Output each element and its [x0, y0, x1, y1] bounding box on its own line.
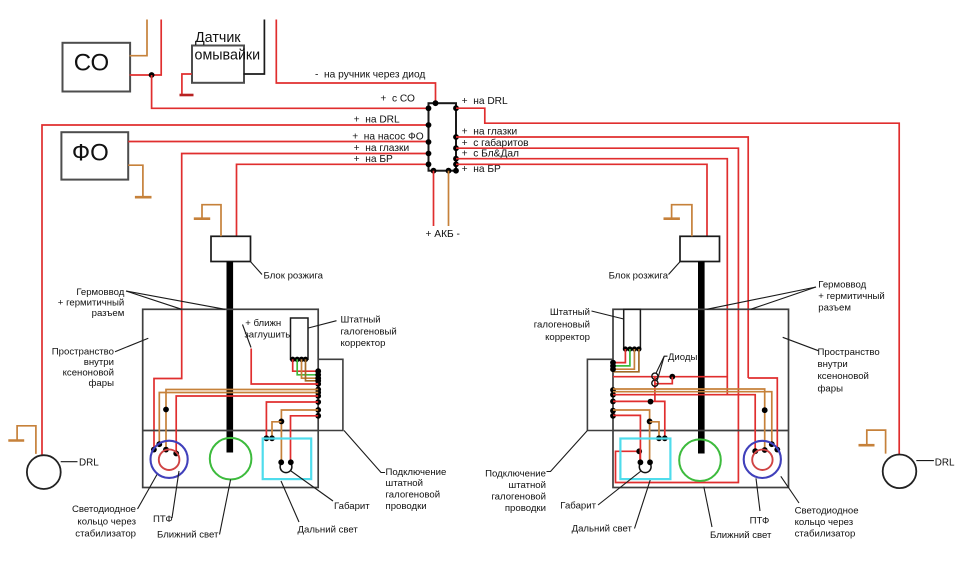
lamp LED ring left (ПТФ) blue	[151, 441, 188, 478]
node X1 pin left 3 (на насос ФО)	[426, 139, 432, 145]
label Дальний свет right with pointer	[635, 480, 651, 528]
node X1 pin right 4 (с Бл&Дал)	[453, 156, 459, 162]
node X1 top entry (ручник)	[433, 100, 439, 106]
block CO (СО relay)	[63, 43, 131, 92]
wire right orange2 (to LED ring)	[613, 392, 772, 445]
label Подключение штатной галогеновой проводки left	[344, 431, 385, 473]
svg-text:кольцо через: кольцо через	[795, 517, 854, 528]
wire + на DRL right (to right DRL lamp)	[456, 108, 899, 454]
label Подключение штатной галогеновой проводки right	[547, 431, 588, 472]
svg-text:омывайки: омывайки	[195, 48, 261, 64]
wire corrector left pin2 green	[297, 359, 318, 375]
node X1 pin left 4 (на глазки)	[426, 151, 432, 157]
wire left red W6 (wall to дальний box)	[266, 402, 318, 438]
wire заглушить red	[251, 349, 318, 385]
wire CO red output up	[130, 20, 162, 76]
svg-text:+ гермитичный: + гермитичный	[58, 298, 125, 309]
wire right row 401 red	[613, 401, 665, 438]
wire left orange W7 (wall to габарит)	[281, 410, 318, 462]
svg-text:разъем: разъем	[818, 303, 851, 314]
node left wall ladder dots	[315, 368, 321, 374]
ground ignition left orange	[202, 205, 221, 237]
svg-text:ПТФ: ПТФ	[750, 515, 770, 526]
lamp DRL left circle	[27, 455, 61, 489]
svg-text:+ на DRL: + на DRL	[462, 96, 508, 107]
svg-text:внутри: внутри	[818, 359, 848, 370]
wire left orange2 (wall to LED ring)	[159, 393, 318, 445]
svg-text:фары: фары	[89, 378, 115, 389]
wire corrector left pin3 orange	[302, 359, 319, 378]
node on W7	[279, 419, 285, 425]
wire corrector right pin3 orange	[613, 349, 634, 369]
wire right diode row red	[613, 376, 727, 378]
svg-text:ксеноновой: ксеноновой	[63, 368, 114, 379]
node X1 battery pins	[446, 168, 452, 174]
block ignition unit left (Блок розжига)	[211, 236, 251, 261]
node габарит pins left	[278, 459, 284, 465]
wire + с габаритов right	[456, 148, 738, 482]
svg-text:Штатный: Штатный	[550, 307, 590, 318]
node on orange1	[163, 407, 169, 413]
block corrector left (Штатный галогеновый корректор)	[291, 318, 309, 359]
svg-text:галогеновый: галогеновый	[534, 320, 590, 331]
wire + с СО (junction to connector)	[152, 75, 429, 108]
node corrector left pins	[290, 357, 295, 362]
svg-text:проводки: проводки	[386, 501, 427, 512]
wire + на DRL left (to left DRL lamp)	[42, 125, 429, 455]
svg-text:внутри: внутри	[84, 357, 114, 368]
node X1 pin right 5 (на БР)	[453, 161, 459, 167]
node right wall ladder dots	[610, 360, 616, 366]
lamp LED ring right (ПТФ) blue	[744, 441, 781, 478]
svg-text:+ с габаритов: + с габаритов	[462, 137, 529, 149]
wire left orange1 (wall to LED ring)	[166, 390, 318, 450]
svg-text:Светодиодное: Светодиодное	[72, 504, 136, 515]
svg-text:разъем: разъем	[92, 308, 125, 319]
pointer Пространство right	[783, 337, 819, 350]
node габаритов bottom corner	[636, 448, 642, 454]
wire + на БР left (to left ignition block)	[237, 164, 429, 236]
pointer Светодиодное right	[781, 476, 799, 503]
label ПТФ right with pointer	[756, 478, 760, 511]
diode D1 (open circle)	[652, 373, 658, 379]
wire + на глазки right	[456, 137, 748, 378]
wire + на БР right (to right ignition block)	[456, 164, 707, 236]
ground washer sensor	[182, 74, 192, 94]
svg-text:стабилизатор: стабилизатор	[75, 528, 136, 539]
svg-text:Габарит: Габарит	[560, 500, 596, 511]
wire left red W4 (wall to LED ring)	[176, 396, 318, 453]
ground ignition right orange	[672, 205, 692, 237]
label Габарит left with pointer	[291, 471, 333, 501]
diode D2 (open circle)	[652, 380, 658, 386]
wire corrector right pin4 brown	[613, 349, 639, 372]
svg-text:проводки: проводки	[505, 503, 546, 514]
wire right red row394 (to LED ring)	[613, 395, 755, 452]
wire right orange1 (to LED ring)	[613, 389, 765, 450]
label ПТФ left with pointer	[172, 471, 179, 518]
wire corrector right pin1 red	[613, 349, 625, 363]
lamp ПТФ inner red circle right	[752, 450, 772, 470]
label DRL left with pointer	[61, 461, 78, 463]
node X1 corner bottom-right	[453, 168, 459, 174]
svg-text:галогеновой: галогеновой	[386, 490, 441, 501]
node X1 pin left 2 (на DRL)	[426, 122, 432, 128]
node X1 pin left 1 (с СО)	[426, 105, 432, 111]
ground FO orange	[128, 165, 143, 197]
svg-text:корректор: корректор	[545, 332, 590, 343]
label Штатный галогеновый корректор right with pointer	[592, 311, 624, 319]
svg-text:Дальний свет: Дальний свет	[572, 524, 633, 535]
block washer sensor (Датчик омывайки)	[192, 46, 244, 83]
node corrector right pins	[623, 346, 628, 351]
node CO junction	[149, 72, 155, 78]
svg-text:+ на БР: + на БР	[462, 164, 501, 175]
svg-text:Блок розжига: Блок розжига	[264, 271, 324, 282]
label Диоды with pointers	[656, 356, 668, 373]
box left штатная проводка connection	[318, 359, 343, 430]
node дальний box stubs right	[662, 435, 668, 441]
wire battery negative (АКБ -)	[448, 171, 450, 226]
label Дальний свет left with pointer	[281, 481, 299, 522]
svg-text:Блок розжига: Блок розжига	[609, 271, 669, 282]
block FO (ФО relay)	[61, 132, 128, 179]
wire + на насос ФО	[128, 141, 428, 143]
node X1 corner bottom-left	[431, 168, 437, 174]
svg-text:корректор: корректор	[341, 338, 386, 349]
node X1 pin left 5 (на БР)	[426, 161, 432, 167]
svg-text:Гермоввод: Гермоввод	[818, 280, 866, 291]
wire left red W8 (wall to габарит)	[291, 416, 319, 462]
node on right orange1	[762, 407, 768, 413]
divider left headlight	[143, 430, 319, 432]
svg-text:штатной: штатной	[386, 478, 424, 489]
node diode branch	[669, 374, 675, 380]
ground DRL right orange	[867, 430, 886, 454]
lamp ближний свет left green circle	[210, 438, 252, 480]
svg-text:заглушить: заглушить	[244, 330, 290, 341]
connector X1 (central joint)	[429, 103, 457, 171]
node X1 pin right 2 (на глазки)	[453, 134, 459, 140]
svg-text:DRL: DRL	[79, 458, 99, 469]
node ring feed dots right	[752, 448, 758, 454]
svg-text:галогеновый: галогеновый	[341, 326, 397, 337]
label Блок розжига left with pointer	[250, 262, 262, 275]
svg-text:Штатный: Штатный	[341, 315, 381, 326]
wire W7 branch orange	[272, 422, 281, 439]
svg-text:штатной: штатной	[509, 480, 547, 491]
wire corrector left pin1 red	[293, 359, 319, 371]
svg-text:ксеноновой: ксеноновой	[818, 371, 869, 382]
svg-text:- на ручник через диод: - на ручник через диод	[315, 70, 425, 81]
lamp ближний свет right green circle	[679, 439, 721, 481]
ground DRL left orange	[17, 426, 36, 454]
pointer Пространство left	[115, 338, 148, 351]
wire - на ручник через диод	[276, 20, 435, 104]
svg-text:Подключение: Подключение	[386, 467, 447, 478]
box дальний свет right cyan	[620, 439, 670, 480]
svg-text:СО: СО	[74, 50, 109, 77]
label Габарит right with pointer	[598, 471, 641, 505]
label Блок розжига right with pointer	[669, 262, 681, 275]
svg-text:+ на глазки: + на глазки	[462, 127, 518, 138]
svg-text:Подключение: Подключение	[485, 469, 546, 480]
wire W7R branch orange	[650, 422, 659, 439]
pointer Гермоввод left lines	[126, 291, 182, 309]
svg-text:кольцо через: кольцо через	[77, 516, 136, 527]
node on W7R	[647, 419, 653, 425]
svg-text:Диоды: Диоды	[668, 352, 698, 363]
lamp DRL right circle	[883, 455, 917, 489]
svg-text:+ гермитичный: + гермитичный	[818, 291, 885, 302]
svg-text:Светодиодное: Светодиодное	[795, 506, 859, 517]
lamp габарит right (small circle)	[639, 463, 651, 472]
svg-text:Пространство: Пространство	[52, 346, 114, 357]
label DRL right with pointer	[916, 460, 934, 462]
divider right headlight	[613, 430, 789, 432]
svg-text:+ на DRL: + на DRL	[354, 115, 400, 126]
node габарит pins right	[638, 459, 644, 465]
svg-text:+ с СО: + с СО	[380, 94, 415, 105]
wire washer sensor black up	[244, 20, 265, 75]
svg-text:стабилизатор: стабилизатор	[795, 529, 856, 540]
wire corrector right pin2 green	[613, 349, 630, 366]
svg-text:+ на насос ФО: + на насос ФО	[352, 131, 424, 142]
svg-text:Дальний свет: Дальний свет	[298, 525, 359, 536]
pointer Гермоввод right lines	[707, 287, 816, 309]
svg-text:+ на БР: + на БР	[354, 154, 393, 165]
pointer Светодиодное left	[138, 475, 158, 510]
label Ближний свет right with pointer	[704, 487, 712, 527]
cable HV thick left (ignition to lamp)	[227, 262, 234, 453]
svg-text:Датчик: Датчик	[195, 30, 241, 46]
wire CO orange stub up	[130, 20, 147, 56]
node ring feed dots left	[151, 447, 157, 453]
cable HV thick right	[698, 262, 705, 454]
lamp габарит left (small circle)	[280, 463, 292, 472]
svg-text:+ АКБ -: + АКБ -	[426, 229, 460, 240]
label Ближний свет left with pointer	[220, 480, 231, 535]
enclosure left headlight body	[143, 309, 319, 487]
wire battery positive (+ АКБ)	[433, 171, 435, 226]
svg-text:галогеновой: галогеновой	[491, 492, 546, 503]
box right штатная проводка connection	[587, 359, 613, 430]
svg-text:ФО: ФО	[72, 139, 109, 166]
box дальний свет left cyan	[263, 439, 312, 480]
node on row 401	[648, 399, 654, 405]
pointer tick заглушить	[243, 325, 252, 348]
wire right глазки to ring	[748, 378, 777, 450]
svg-text:DRL: DRL	[935, 458, 955, 469]
svg-text:ПТФ: ПТФ	[153, 514, 173, 525]
svg-text:+ ближн: + ближн	[245, 318, 281, 329]
label Штатный галогеновый корректор left with pointer	[308, 321, 336, 328]
svg-text:фары: фары	[818, 383, 844, 394]
svg-text:Габарит: Габарит	[334, 501, 370, 512]
node X1 pin right 3 (с габаритов)	[453, 145, 459, 151]
svg-text:Ближний свет: Ближний свет	[157, 530, 219, 541]
lamp ПТФ inner red circle left	[159, 449, 180, 470]
wire right orange W7R (to габарит)	[613, 410, 650, 462]
wire diode branch down	[655, 377, 672, 402]
svg-text:Гермоввод: Гермоввод	[76, 287, 124, 298]
node дальний box stubs	[264, 435, 270, 441]
block corrector right	[624, 309, 641, 349]
svg-text:Ближний свет: Ближний свет	[710, 530, 772, 541]
svg-text:Пространство: Пространство	[818, 347, 880, 358]
svg-text:+ на глазки: + на глазки	[354, 143, 410, 154]
wire + на глазки left	[154, 154, 429, 450]
wire right red W8R (wall to габарит)	[613, 415, 640, 462]
wire + с Бл&Дал right	[456, 159, 727, 395]
enclosure right headlight body	[613, 309, 789, 487]
node X1 pin right 1 (на DRL)	[453, 105, 459, 111]
block ignition unit right (Блок розжига)	[680, 236, 720, 261]
wire corrector left pin4 brown	[306, 359, 319, 381]
